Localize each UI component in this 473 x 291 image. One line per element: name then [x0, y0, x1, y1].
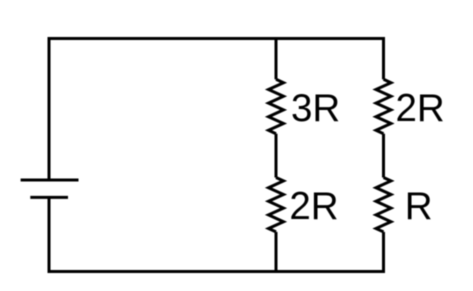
resistor 2R (right upper) [376, 79, 391, 133]
svg-text:2R: 2R [289, 185, 338, 228]
wire middle branch between resistors [275, 134, 278, 178]
svg-text:2R: 2R [396, 87, 445, 130]
wire bottom [48, 270, 386, 273]
wire left upper (battery to top) [48, 37, 51, 180]
svg-text:3R: 3R [291, 87, 340, 130]
wire middle branch lower lead [275, 232, 278, 273]
resistor 2R (middle lower) [269, 178, 284, 232]
resistor R (right lower) [376, 178, 391, 232]
wire right branch between resistors [382, 134, 385, 178]
battery V1 short plate (-) [30, 196, 68, 199]
wire top [48, 37, 386, 40]
wire left lower (battery to bottom) [48, 197, 51, 273]
svg-text:R: R [405, 185, 433, 228]
resistor 3R [269, 79, 284, 133]
wire right branch upper lead [382, 37, 385, 79]
wire right branch lower lead [382, 232, 385, 273]
wire middle branch upper lead [275, 37, 278, 79]
battery V1 long plate (+) [21, 179, 79, 182]
